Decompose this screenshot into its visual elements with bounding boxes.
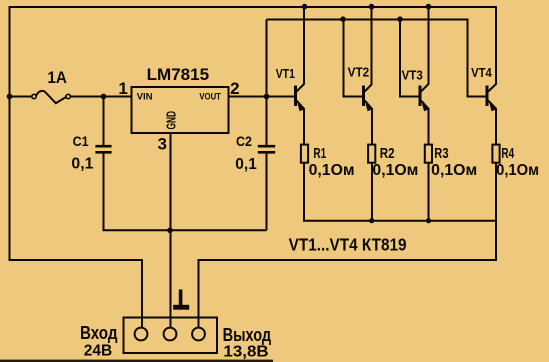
svg-text:0,1Ом: 0,1Ом [431,162,477,179]
svg-text:0,1: 0,1 [235,156,257,173]
svg-text:VT4: VT4 [471,65,492,80]
svg-text:VIN: VIN [137,92,153,102]
svg-text:0,1: 0,1 [71,156,93,173]
svg-text:3: 3 [157,134,166,153]
svg-text:GND: GND [165,111,179,130]
svg-text:VT3: VT3 [402,67,423,82]
svg-text:R1: R1 [313,145,326,162]
svg-text:1: 1 [118,79,127,98]
svg-text:24В: 24В [84,342,113,359]
svg-text:13,8В: 13,8В [223,343,268,361]
svg-text:Вход: Вход [80,322,118,343]
svg-text:0,1Ом: 0,1Ом [309,162,355,179]
svg-text:VT2: VT2 [348,65,370,80]
svg-text:R3: R3 [434,145,448,162]
svg-text:2: 2 [230,79,239,98]
svg-text:0,1Ом: 0,1Ом [372,162,418,179]
svg-text:0,1Ом: 0,1Ом [496,162,539,179]
svg-text:VT1...VT4 КТ819: VT1...VT4 КТ819 [289,235,407,255]
svg-text:C1: C1 [73,133,89,149]
svg-text:1A: 1A [47,68,67,87]
svg-text:LM7815: LM7815 [147,65,210,84]
svg-text:R4: R4 [501,145,514,162]
svg-text:C2: C2 [236,133,252,149]
svg-text:R2: R2 [380,145,395,162]
svg-text:VOUT: VOUT [199,92,221,102]
svg-text:VT1: VT1 [276,66,295,81]
